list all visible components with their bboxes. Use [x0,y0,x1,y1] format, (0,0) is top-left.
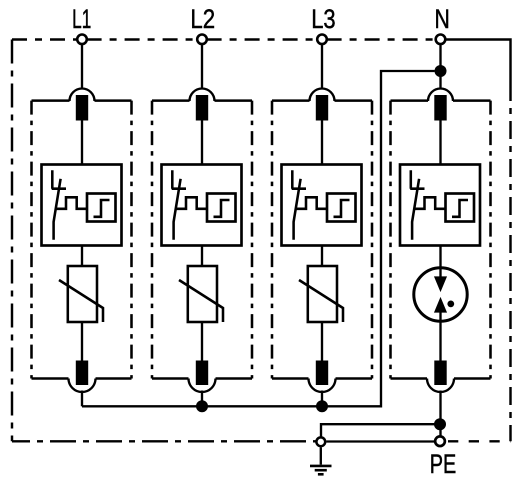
varistor L1 [68,266,97,322]
junction L3/N bus [316,400,328,412]
svg-text:L3: L3 [311,5,335,35]
plug-in connector top (L2 branch) [190,89,215,102]
wire connector to disconnector (N) [439,121,441,165]
wire N terminal to module [439,44,441,89]
module box N [391,101,491,379]
disconnector switch contact (L3) [292,170,306,239]
module box L1 [32,101,132,379]
wire connector to disconnector (L2) [201,121,203,165]
node N junction [435,65,447,77]
wire varistor to bottom connector (L2) [201,322,203,361]
wire disconnector to varistor (L1) [81,246,83,267]
plug-in connector bottom (N branch) [427,379,454,393]
enclosure border bottom edge [12,440,316,442]
disconnector switch contact (L1) [52,170,66,239]
wire spark gap output down to PE node [439,391,441,437]
wire PE node to earth terminal [321,424,440,437]
module box L3 [272,101,372,379]
plug-in connector bottom (L3 branch) [309,379,336,393]
wire disconnector to varistor (L2) [201,246,203,267]
svg-text:L2: L2 [190,5,215,34]
wire L3 terminal to module [321,44,323,89]
trip linkage waveform (L1) [56,197,87,209]
varistor L3 [308,266,337,322]
wire spark gap to bottom connector (N) [439,311,441,361]
svg-text:L1: L1 [72,4,91,34]
svg-text:N: N [435,5,450,35]
enclosure border top-right corner (solid run) [445,40,511,84]
spark gap / gas discharge tube (N-PE) [414,268,467,321]
wire varistor to bottom connector (L1) [81,322,83,361]
varistor L2 [188,266,217,322]
disconnector switch contact (L2) [172,170,186,239]
wire L3 bottom to N bus [321,391,323,407]
plug-in connector top (L1 branch) [70,89,95,102]
wire disconnector to spark gap (N) [439,246,441,279]
enclosure border left edge [11,40,13,442]
trip indicator box (L3) [327,194,356,222]
thermal disconnector box (L3) [282,165,362,246]
junction L2/N bus [196,400,208,412]
trip linkage waveform (N) [415,197,446,209]
plug-in connector bottom (L2 branch) [189,379,216,393]
disconnector switch contact (N) [410,170,424,239]
terminal L1 [77,35,87,45]
earth terminal [316,437,325,446]
wire N bus (varistor commons to N node) [82,71,435,406]
terminal N [436,35,446,45]
trip linkage waveform (L2) [176,197,207,209]
wire earth terminal to PE terminal (border run) [326,440,434,442]
svg-text:PE: PE [430,450,456,480]
wire L1 bottom to N bus [81,391,83,407]
enclosure border top edge [12,38,436,40]
terminal L2 [197,35,207,45]
wire L2 bottom to N bus [201,391,203,407]
wire L2 terminal to module [201,44,203,89]
trip indicator box (N) [446,194,475,222]
wire connector to disconnector (L1) [81,121,83,165]
thermal disconnector box (N) [400,165,480,246]
trip indicator box (L2) [207,194,236,222]
ground symbol [320,447,322,464]
plug-in connector top (L3 branch) [310,89,335,102]
enclosure border right edge [509,83,511,441]
wire disconnector to varistor (L3) [321,246,323,267]
trip linkage waveform (L3) [296,197,327,209]
terminal L3 [317,35,327,45]
plug-in connector top (N branch) [428,89,453,102]
plug-in connector bottom (L1 branch) [69,379,96,393]
wire connector to disconnector (L3) [321,121,323,165]
module box L2 [152,101,252,379]
trip indicator box (L1) [87,194,116,222]
thermal disconnector box (L1) [42,165,122,246]
terminal PE [435,436,445,446]
thermal disconnector box (L2) [162,165,242,246]
wire L1 terminal to module [81,44,83,89]
node PE junction [434,418,446,430]
wire varistor to bottom connector (L3) [321,322,323,361]
